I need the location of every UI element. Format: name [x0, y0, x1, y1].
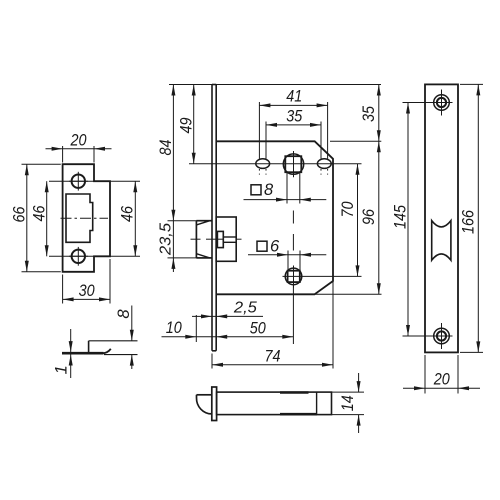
dimension 1 (strike side)	[52, 329, 72, 378]
svg-text:8: 8	[115, 309, 133, 319]
dimension 6 (bottom spindle)	[248, 253, 326, 257]
text 23,5	[157, 223, 174, 256]
svg-text:8: 8	[264, 181, 274, 199]
dimension 66 (strike left)	[11, 164, 61, 272]
strike plate outline	[63, 164, 110, 272]
latch plan thick guides	[280, 393, 317, 415]
dimension 84 and 23,5 line	[171, 85, 175, 273]
latch plan divider	[316, 392, 318, 415]
spindle square hole	[283, 151, 303, 177]
dimension 35 (right) and 96 line	[377, 85, 381, 295]
svg-text:35: 35	[360, 105, 378, 122]
strike side bent tab	[89, 341, 138, 355]
text 96	[360, 208, 378, 225]
latch plan head	[196, 395, 211, 414]
svg-text:46: 46	[119, 205, 137, 222]
dimension 145	[392, 103, 411, 337]
strike hole centerline top	[49, 180, 140, 182]
text 35 right	[360, 105, 378, 122]
dimension 70	[339, 164, 360, 277]
latch face extension	[195, 315, 197, 342]
svg-text:30: 30	[79, 282, 96, 300]
dimension 20 (strike top)	[46, 132, 112, 163]
svg-text:166: 166	[459, 209, 477, 234]
faceplate strip	[212, 85, 216, 351]
svg-text:74: 74	[265, 347, 281, 365]
dimension 20 (faceplate)	[403, 355, 480, 394]
latch plan faceplate bar	[212, 387, 217, 421]
svg-text:84: 84	[157, 140, 175, 156]
wc hole centerline	[283, 275, 362, 277]
dimension 49	[178, 85, 196, 164]
strike side plate bar	[62, 349, 111, 354]
faceplate plate outline	[425, 84, 458, 352]
dimension 8 (strike side)	[115, 306, 134, 370]
svg-text:50: 50	[250, 320, 267, 338]
latch top extension	[168, 220, 198, 222]
latch housing	[216, 217, 236, 261]
faceplate screw hole top	[403, 90, 453, 116]
svg-text:46: 46	[31, 205, 49, 222]
label square 8	[251, 181, 274, 199]
dimension 46 (strike inner left)	[31, 181, 49, 256]
upper holes centerline	[189, 163, 362, 165]
dimension 166	[459, 84, 483, 352]
svg-text:96: 96	[360, 208, 378, 225]
svg-text:23,5: 23,5	[157, 223, 174, 256]
svg-text:20: 20	[70, 132, 88, 150]
faceplate bottom extension	[211, 354, 213, 369]
faceplate screw hole bottom	[403, 323, 453, 349]
strike plate latch opening box	[66, 194, 93, 242]
strike screw hole bottom	[69, 247, 88, 266]
body top edge extension	[330, 140, 381, 142]
text 84	[157, 140, 175, 156]
latch follower	[217, 231, 223, 247]
strike screw hole top	[69, 172, 88, 191]
dimension 35 (top)	[266, 107, 321, 127]
oval hole right	[317, 159, 331, 169]
dimension 74	[212, 347, 333, 367]
svg-text:6: 6	[270, 237, 280, 255]
wc square hole	[285, 266, 302, 288]
dimension 2,5	[192, 300, 263, 319]
svg-text:145: 145	[392, 204, 410, 229]
dimension 14	[332, 373, 365, 433]
dimension 30 (strike bottom)	[63, 259, 110, 304]
faceplate latch cutout	[432, 221, 451, 261]
strike plate box centerline	[61, 217, 109, 219]
latch bolt head	[196, 221, 212, 258]
svg-text:35: 35	[286, 107, 303, 125]
square hole edge extensions	[287, 172, 300, 203]
spindle vertical centerline	[292, 211, 294, 251]
oval extension lines	[259, 102, 327, 175]
oval hole left	[256, 159, 270, 169]
lock body outline	[216, 141, 333, 294]
latch bottom extension	[168, 257, 198, 259]
wc hole edge extensions	[288, 251, 300, 271]
top reference line	[169, 84, 381, 86]
dimension 41	[259, 87, 327, 107]
dimension 10 and 50	[162, 319, 294, 339]
svg-text:2,5: 2,5	[233, 300, 257, 317]
wc hole vertical line	[292, 285, 294, 344]
svg-text:70: 70	[339, 201, 357, 218]
dimension 46 (strike right)	[119, 181, 138, 256]
latch centerline	[191, 238, 242, 240]
latch plan body	[217, 392, 332, 415]
latch spring rod	[223, 237, 236, 242]
svg-text:41: 41	[286, 87, 302, 105]
body bottom edge extension	[315, 293, 382, 295]
svg-text:1: 1	[52, 365, 70, 374]
svg-text:20: 20	[433, 371, 451, 389]
svg-text:14: 14	[339, 395, 357, 411]
svg-text:10: 10	[166, 319, 183, 337]
svg-text:66: 66	[11, 206, 29, 223]
label square 6	[257, 237, 280, 255]
svg-text:49: 49	[178, 118, 196, 134]
strike hole centerline bottom	[49, 255, 140, 257]
body right edge extension	[332, 281, 334, 369]
dimension 8 (spindle)	[244, 198, 327, 202]
